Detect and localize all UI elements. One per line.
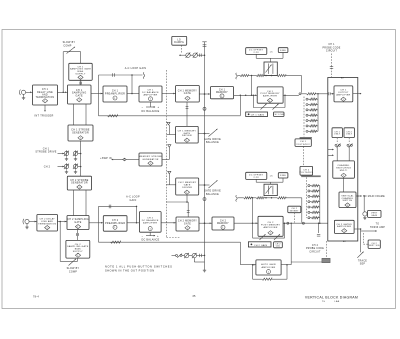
wire dc amp2 to memory gate2	[161, 222, 176, 224]
block CH1 memory gate driver	[176, 126, 199, 143]
svg-text:TRACE: TRACE	[358, 259, 367, 262]
wire ladder to output amp	[329, 92, 335, 95]
svg-text:PREAMPLIFIER: PREAMPLIFIER	[105, 222, 125, 225]
block CH1 post memory amplifier	[257, 87, 283, 103]
wire damping pots	[179, 54, 186, 56]
block CH1 dc balance amplifier	[139, 86, 162, 102]
ground T1	[66, 157, 68, 159]
toroid T2	[73, 151, 77, 155]
svg-text:CAL: CAL	[276, 245, 281, 248]
switch channel 2	[347, 144, 352, 148]
wire CH2 blowby loop	[60, 222, 77, 262]
trimmer ch2 cal	[274, 234, 280, 240]
block VERT GAIN	[368, 210, 381, 217]
svg-text:CH 1 CAL: CH 1 CAL	[273, 113, 285, 116]
block CH1 sampling gate supply	[69, 63, 92, 80]
resistor ladder CH2	[308, 185, 320, 224]
connector trunk c1	[203, 107, 206, 110]
flag TP3	[168, 171, 171, 174]
svg-text:CIRCUIT: CIRCUIT	[326, 51, 338, 53]
block FINE 1	[278, 48, 288, 53]
svg-text:CH 2 GAIN: CH 2 GAIN	[254, 244, 268, 247]
svg-text:SEP: SEP	[360, 264, 366, 266]
svg-text:CH 1 GAIN: CH 1 GAIN	[251, 114, 265, 117]
ground jack	[364, 216, 366, 218]
label SLOW BY COMP 2	[67, 267, 80, 273]
enclosure output board	[328, 78, 358, 242]
svg-text:COMP: COMP	[63, 44, 71, 47]
svg-text:2.2V: 2.2V	[253, 177, 259, 179]
wire switches to mult	[337, 146, 349, 161]
dashed damping link	[181, 45, 183, 54]
block CH1 memory	[210, 87, 233, 99]
svg-text:STROBE DRIVE: STROBE DRIVE	[35, 151, 56, 154]
pot R2	[193, 53, 197, 57]
wire supply to gate	[80, 80, 82, 85]
wire offset feed 1	[251, 76, 253, 97]
block CH1 GAIN front-panel	[246, 112, 268, 117]
connector J1 CH1 input	[19, 90, 32, 100]
svg-text:VOLTS/DIV: VOLTS/DIV	[296, 144, 310, 146]
block CH2 preamplifier	[103, 216, 127, 232]
dashed pushbutton link 1	[336, 138, 338, 144]
svg-text:LO: LO	[177, 39, 181, 41]
ground T2	[75, 157, 77, 159]
svg-text:VERT SIG: VERT SIG	[369, 245, 380, 247]
block CH1 memory gate	[176, 86, 200, 103]
svg-text:ONLY: ONLY	[346, 134, 353, 136]
svg-text:DC BALANCE: DC BALANCE	[141, 239, 159, 242]
dashed pushbutton link 2	[348, 138, 350, 144]
trimmer slow-by comp 2	[69, 259, 77, 266]
svg-text:SUPPLY: SUPPLY	[73, 251, 83, 253]
dashed probe code link 1	[330, 54, 333, 78]
wire offset feed 2	[252, 198, 254, 224]
loop CH2 ac gain top	[99, 205, 138, 209]
block CH2 INVERT	[288, 206, 301, 213]
svg-text:GAIN: GAIN	[371, 214, 377, 217]
block CH1 delay line and termination	[33, 85, 58, 105]
svg-text:GATE: GATE	[75, 94, 83, 97]
svg-text:GAIN: GAIN	[130, 199, 137, 202]
loop CH2 left	[98, 206, 100, 242]
block CH2 dc balance amplifier	[139, 212, 161, 233]
capacitor trunk top	[202, 42, 206, 256]
ground T4	[75, 170, 77, 172]
wire gate to strobe gen left	[73, 104, 75, 125]
block CH2 VOLTS/DIV	[299, 166, 313, 175]
wire memory2 to post amp2	[234, 222, 258, 224]
svg-text:AUTO GAIN: AUTO GAIN	[261, 263, 276, 266]
svg-text:SHOWN IN THE OUT POSITION: SHOWN IN THE OUT POSITION	[105, 268, 155, 272]
block CH2 CAL	[274, 242, 283, 248]
svg-text:MULTI: MULTI	[340, 170, 348, 172]
block channel switching multi	[333, 161, 355, 178]
wire preamp2 to dc amp2	[127, 222, 139, 224]
block CH1 output amplifier	[334, 86, 353, 102]
wire strobe trunk down	[80, 141, 82, 176]
dashed volts/div link	[303, 146, 305, 166]
trimmer trace sep	[357, 252, 363, 258]
trimmer ch1 gain	[261, 104, 267, 110]
wire post amp2 out	[283, 222, 334, 224]
svg-text:±5: ±5	[270, 175, 273, 177]
block vertical channel switch	[339, 192, 356, 208]
svg-text:TO: TO	[376, 224, 380, 226]
wire trace sep	[360, 229, 362, 252]
block CH2 post memory amplifier	[258, 216, 283, 236]
block LF damping	[172, 36, 187, 45]
svg-text:VOLTS/DIV: VOLTS/DIV	[299, 172, 313, 174]
pot smoothing 2	[192, 253, 196, 257]
wire memory1 to post amp	[234, 94, 258, 96]
wire gate to strobe gen right	[85, 104, 87, 125]
svg-text:CH 1: CH 1	[328, 44, 335, 46]
trimmer gate drive bal 2	[209, 180, 218, 188]
block CH1 sampling gate	[68, 85, 92, 104]
wire attenuator feed 1	[301, 76, 303, 93]
connector vert gain jack	[363, 212, 367, 216]
block CH2 sampling gate	[67, 216, 89, 230]
pot network 1	[264, 62, 277, 75]
svg-text:COMP: COMP	[69, 270, 77, 273]
wire preamp to dc amp	[127, 93, 139, 95]
wire loop2 drop	[136, 206, 138, 223]
loop CH1 ac gain top	[99, 72, 145, 78]
svg-text:HORIZ AMP: HORIZ AMP	[370, 226, 385, 229]
block DC OFFSET 2	[246, 172, 267, 179]
wire memory gate1 to memory1	[199, 93, 210, 95]
wire gain loop riser	[240, 95, 242, 116]
loop CH2 bottom	[99, 241, 241, 243]
wire jack drop	[363, 196, 365, 212]
svg-text:ONLY: ONLY	[334, 134, 341, 136]
wire driver1 to gate1	[186, 102, 189, 126]
label GATE DRIVE BALANCE 2	[204, 190, 221, 196]
ground T3	[66, 170, 68, 172]
trimmer slow-by comp	[67, 47, 76, 54]
wire memory gate2 to memory2	[199, 222, 212, 224]
svg-text:AMPLIFIER: AMPLIFIER	[261, 266, 275, 269]
svg-text:A-C LOOP GAIN: A-C LOOP GAIN	[125, 67, 147, 70]
svg-text:AMPLIFIER: AMPLIFIER	[264, 226, 278, 229]
wire strobe branch	[168, 147, 170, 159]
wire attenuator feed 2	[301, 198, 303, 223]
svg-text:AMPLIFIER: AMPLIFIER	[336, 93, 350, 96]
resistor ladder CH1	[306, 94, 318, 133]
svg-text:GENERATOR: GENERATOR	[72, 131, 89, 134]
svg-text:DRIVER: DRIVER	[182, 135, 192, 137]
wire strobe gen2 to gate right	[85, 190, 87, 216]
wire driver1 bal tap	[198, 133, 209, 135]
wire toroid T2 to trunk	[78, 153, 81, 155]
svg-text:AMPLIFIER: AMPLIFIER	[143, 221, 157, 224]
block CH1 strobe generator	[68, 125, 93, 141]
wire output amp1 out	[353, 93, 362, 95]
svg-text:2.2V: 2.2V	[253, 52, 259, 54]
svg-text:+: +	[158, 105, 160, 109]
wire CH1 gate to preamp	[91, 93, 103, 95]
wire strobe to driver1	[166, 125, 175, 135]
loop auto gain	[253, 264, 288, 280]
label CH2 PROBE CODE CIRCUIT	[306, 245, 324, 253]
svg-text:AMPLIFIER: AMPLIFIER	[337, 225, 351, 228]
svg-text:TO MAIN FRAME: TO MAIN FRAME	[363, 195, 385, 198]
wire CH1 blowby feedback loop	[63, 52, 80, 93]
block CH2 GAIN front-panel	[248, 242, 271, 247]
pot smoothing 1	[184, 253, 188, 257]
switch contact ladder1 top	[299, 93, 301, 95]
svg-text:CIRCUIT: CIRCUIT	[309, 251, 321, 253]
block CH2 memory gate	[176, 217, 199, 231]
svg-text:7S: 7S	[322, 301, 325, 303]
block CH2 memory gate driver	[176, 178, 199, 195]
label AC LOOP GAIN 2	[126, 196, 140, 202]
wire driver2 to gate2	[166, 195, 189, 217]
wire INT TRIGGER out	[44, 105, 46, 112]
dashed interconnect elbow	[166, 237, 180, 239]
wire strobe drive 1	[58, 153, 65, 155]
label CH1 STROBE DRIVE	[35, 147, 56, 153]
loop CH1 left	[98, 75, 100, 116]
label CH1 PROBE CODE CIRCUIT	[322, 44, 340, 52]
wire offset to pot 1	[256, 53, 283, 63]
svg-text:+: +	[157, 234, 159, 238]
wire CH2 gate to preamp	[89, 222, 103, 224]
svg-text:CH 2: CH 2	[312, 245, 319, 247]
switch bar CH2	[301, 175, 321, 177]
svg-text:±5: ±5	[270, 51, 273, 53]
svg-text:CH 2: CH 2	[44, 165, 51, 168]
block pushbutton CH1	[332, 128, 342, 138]
svg-text:MEMORY: MEMORY	[217, 223, 229, 225]
svg-text:LAB: LAB	[335, 300, 340, 303]
block CH2 memory	[212, 217, 234, 230]
dashed ladder1 linkage	[303, 97, 305, 137]
wire toroid T4 to trunk	[78, 166, 81, 168]
wire to horiz	[361, 230, 377, 232]
adjust dc balance 2	[142, 232, 160, 238]
wire probe code tap 2	[317, 222, 320, 236]
svg-text:PROBE CODE: PROBE CODE	[306, 248, 324, 250]
wire mult to vcs	[343, 178, 345, 192]
wire pot link	[190, 54, 193, 56]
wire mult input a	[328, 149, 334, 151]
block readout mod	[322, 258, 330, 262]
dashed mod link	[325, 241, 327, 258]
trimmer gate drive bal 1	[209, 129, 218, 137]
wire mod feed	[291, 261, 322, 263]
svg-text:AMPLIFIER: AMPLIFIER	[263, 95, 277, 98]
wire strobe drive 2	[58, 166, 65, 168]
switch smoothing	[172, 254, 185, 258]
block pushbutton CH2	[344, 128, 354, 138]
flag TP2	[168, 145, 171, 148]
svg-text:−: −	[142, 105, 144, 109]
svg-text:GATE: GATE	[74, 221, 81, 224]
block CH1 preamplifier	[103, 86, 127, 102]
svg-text:GATE: GATE	[184, 92, 191, 95]
trimmer ch1 cal	[273, 104, 279, 110]
toroid T4	[73, 164, 77, 168]
svg-text:GENERATOR: GENERATOR	[71, 182, 88, 185]
svg-text:BALANCE: BALANCE	[206, 193, 219, 196]
block CH2 strobe generator	[67, 176, 91, 190]
dashed ladder2 linkage	[305, 177, 307, 218]
wire post amp1 out	[283, 94, 299, 96]
svg-text:PREAMPLIFIER: PREAMPLIFIER	[105, 92, 125, 95]
svg-text:DRIVER: DRIVER	[182, 187, 192, 189]
wire memory strobe out	[162, 159, 169, 161]
block CH1 VOLTS/DIV	[295, 139, 311, 147]
block FINE 2	[278, 173, 288, 178]
ground smoothing	[194, 255, 206, 272]
junction vcs	[363, 195, 365, 197]
svg-text:35: 35	[192, 295, 196, 298]
label GATE DRIVE BALANCE 1	[204, 138, 221, 144]
block auto gain amplifier	[256, 260, 281, 275]
svg-text:CH 1: CH 1	[112, 91, 119, 93]
wire gated out	[354, 228, 361, 230]
label TO HORIZ AMP	[370, 224, 385, 229]
dashed ch2 only link	[363, 233, 368, 244]
toroid T3	[64, 164, 68, 168]
svg-text:SWITCH: SWITCH	[343, 200, 353, 202]
svg-text:DELAY LINE: DELAY LINE	[37, 91, 53, 94]
svg-text:GENERATOR: GENERATOR	[142, 158, 158, 161]
switch channel 1	[335, 144, 340, 148]
block CH2 gated amplifier	[334, 220, 354, 233]
toroid T1	[64, 151, 68, 155]
wire strobe to driver2	[166, 174, 175, 185]
block CH2 display	[368, 240, 380, 248]
capacitor smoothing	[197, 254, 206, 257]
block memory strobe generator	[139, 153, 162, 166]
svg-text:DC BALANCE: DC BALANCE	[141, 110, 159, 113]
title subtext	[322, 300, 340, 303]
block CH2 sampling gate supply	[66, 240, 90, 258]
svg-text:CH 2 MEMORY: CH 2 MEMORY	[178, 221, 197, 223]
wire auto gain input	[241, 242, 256, 265]
wire strobe input	[112, 158, 140, 161]
svg-text:BALANCE: BALANCE	[206, 141, 219, 144]
note text	[105, 265, 173, 273]
resistor string 2	[236, 195, 302, 201]
loop CH1 bottom	[99, 115, 241, 117]
wire vcs out	[356, 195, 362, 197]
wire pot joint	[189, 255, 192, 257]
svg-text:FINE: FINE	[280, 175, 286, 177]
flag TP1	[167, 122, 170, 125]
svg-text:CH 1 MEMORY: CH 1 MEMORY	[178, 91, 197, 93]
wire dc amp to memory gate	[162, 93, 176, 95]
loop post amp 2	[253, 222, 286, 238]
dashed interconnect line	[165, 70, 167, 238]
wire mult input b	[328, 154, 334, 156]
label TRACE SEP	[358, 259, 367, 265]
capacitor trunk tap	[197, 54, 204, 57]
wire offset to pot 2	[256, 178, 283, 184]
dashed invert link	[293, 213, 295, 223]
label SLOW BY COMP	[63, 41, 76, 47]
block CH2 delay line and termination	[37, 215, 58, 232]
connector J2 CH2 input	[23, 219, 37, 229]
svg-text:CH 2 STROBE: CH 2 STROBE	[70, 180, 89, 182]
wire strobe gen2 to gate left	[73, 190, 75, 216]
wire gate2 to supply2	[77, 230, 79, 241]
svg-text:CH 2 SAMPLING: CH 2 SAMPLING	[67, 218, 88, 221]
loop post amp 1	[253, 95, 286, 108]
trimmer ch2 gain	[260, 234, 266, 240]
svg-text:AMPLIFIER: AMPLIFIER	[143, 94, 157, 97]
svg-text:PROBE CODE: PROBE CODE	[322, 47, 340, 49]
svg-text:TERMINATION: TERMINATION	[38, 222, 56, 225]
wire loop drop	[131, 75, 133, 94]
wire vert gain tap	[357, 195, 359, 197]
svg-text:INT TRIGGER: INT TRIGGER	[34, 115, 53, 118]
svg-text:−: −	[142, 234, 144, 238]
switch bar CH1	[300, 137, 312, 139]
pot network 2	[264, 184, 277, 195]
block DC OFFSET 1	[246, 48, 267, 55]
svg-text:+SWP IN: +SWP IN	[100, 157, 112, 160]
wire driver2 bal tap	[199, 184, 210, 186]
pot R1	[186, 53, 190, 57]
svg-text:AND: AND	[42, 93, 48, 96]
svg-text:DAMPG: DAMPG	[174, 41, 184, 44]
svg-text:NOTE 1 ALL PUSH-BUTTON SWITC: NOTE 1 ALL PUSH-BUTTON SWITCHES	[105, 265, 173, 269]
svg-text:INVERT: INVERT	[290, 210, 299, 212]
svg-text:FINE: FINE	[280, 50, 286, 52]
wire CH1 delay to sampling gate	[58, 91, 68, 93]
svg-text:78-4: 78-4	[33, 296, 39, 299]
adjust dc balance 1	[142, 102, 160, 109]
junction trunk crossings	[204, 54, 206, 224]
connector trunk c2	[203, 198, 206, 201]
resistor ladder1 top	[301, 93, 328, 95]
svg-text:CH 1 STROBE: CH 1 STROBE	[71, 130, 90, 132]
resistor string 1	[236, 73, 302, 79]
wire CH2 delay to gate	[58, 221, 68, 223]
block CH1 CAL	[273, 112, 285, 117]
svg-text:GATE: GATE	[184, 222, 191, 225]
wire auto gain out	[281, 223, 291, 265]
svg-text:VERTICAL BLOCK DIAGRAM: VERTICAL BLOCK DIAGRAM	[305, 296, 358, 300]
